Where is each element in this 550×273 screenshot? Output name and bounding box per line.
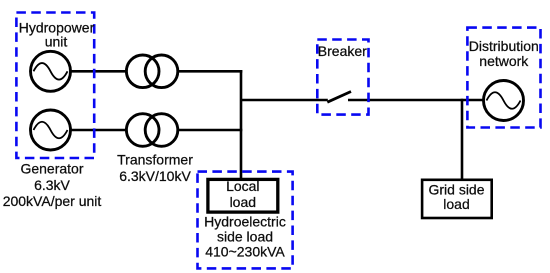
svg-text:Generator: Generator	[20, 161, 83, 177]
svg-text:Distribution: Distribution	[469, 38, 539, 54]
svg-text:Transformer: Transformer	[117, 152, 193, 168]
svg-text:410~230kVA: 410~230kVA	[205, 244, 285, 260]
svg-text:Grid side: Grid side	[428, 181, 484, 197]
svg-text:6.3kV/10kV: 6.3kV/10kV	[119, 168, 191, 184]
svg-text:Hydroelectric: Hydroelectric	[204, 214, 286, 230]
svg-text:6.3kV: 6.3kV	[34, 177, 70, 193]
svg-text:unit: unit	[45, 34, 68, 50]
svg-text:load: load	[443, 196, 469, 212]
svg-text:load: load	[230, 194, 256, 210]
svg-text:Breaker: Breaker	[318, 43, 367, 59]
svg-text:side load: side load	[217, 229, 273, 245]
svg-text:200kVA/per unit: 200kVA/per unit	[3, 193, 102, 209]
svg-text:network: network	[479, 53, 529, 69]
svg-text:Local: Local	[226, 178, 259, 194]
